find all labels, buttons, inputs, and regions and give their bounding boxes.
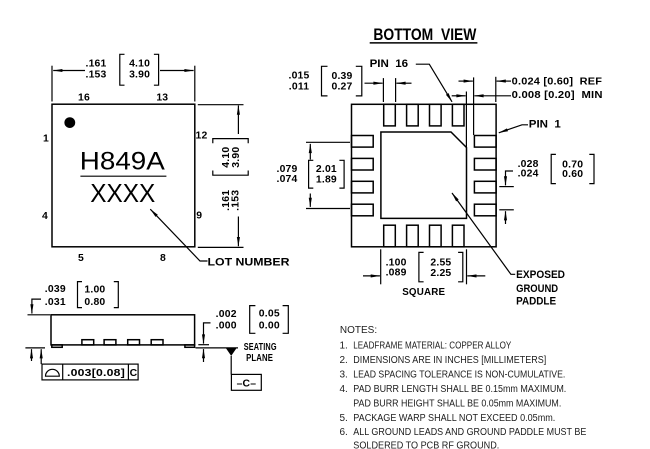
lead span dimension bracket [ [309,160,314,188]
svg-text:.074: .074 [276,174,297,185]
svg-text:SQUARE: SQUARE [402,287,445,298]
svg-text:.153: .153 [85,69,106,80]
pad width dimension arrow right [396,82,411,84]
paddle gap dimension arrow right [452,95,466,97]
standoff dimension arrow up [203,349,205,362]
right height dimension arrow up [237,106,239,135]
top width dimension bracket ] [154,54,159,85]
pad length ref dimension arrow left [497,80,511,82]
svg-text:PLANE: PLANE [246,353,273,364]
svg-text:0.05: 0.05 [259,309,280,320]
right pad 3 [474,181,496,193]
standoff dimension tick [198,344,209,346]
svg-text:2.25: 2.25 [430,268,451,279]
svg-text:PAD BURR LENGTH SHALL BE 0.15m: PAD BURR LENGTH SHALL BE 0.15mm MAXIMUM. [353,384,566,395]
bottom pad 5 [384,225,396,247]
svg-text:5: 5 [78,253,84,264]
right height dimension arrow down [237,217,239,247]
pin 16 leader [416,64,452,102]
bottom pad 6 [407,225,419,247]
side view lead 1 [82,340,94,345]
paddle size dimension ext line right [466,249,468,284]
pad width dimension arrow left [365,82,383,84]
exposed ground paddle leader [452,193,515,274]
svg-text:0.60: 0.60 [562,169,583,180]
right height dimension rotated text .161/.153 [221,190,242,211]
pitch dimension tick bottom [499,209,514,211]
svg-text:LOT NUMBER: LOT NUMBER [208,256,290,268]
lead span dimension bracket ] [339,160,344,188]
right pad 1 [474,136,496,148]
top pad 16 [384,104,396,126]
lot number leader [150,209,207,261]
top width dimension bracket [ [120,54,125,85]
right height dimension rotated bracket group 4.10/3.90 [213,139,248,176]
svg-text:9: 9 [196,211,202,222]
marking underline [80,175,166,177]
svg-text:0.008 [0.20] MIN: 0.008 [0.20] MIN [512,90,603,101]
svg-text:1: 1 [43,134,49,145]
standoff dimension bracket ] [283,306,289,334]
feature control frame box [42,364,138,380]
right height dimension extension line top [198,104,244,106]
bottom pad 8 [452,225,464,247]
svg-text:4.10: 4.10 [129,59,150,70]
pitch dimension bracket [ [551,154,556,183]
pad width dimension bracket ] [356,66,362,96]
side view left terminal tab [52,345,62,347]
package height dimension bracket ] [114,282,119,308]
svg-text:ALL GROUND LEADS AND GROUND PA: ALL GROUND LEADS AND GROUND PADDLE MUST … [353,427,586,438]
svg-text:.031: .031 [45,297,66,308]
svg-text:–C–: –C– [237,378,257,389]
svg-text:PIN 16: PIN 16 [370,58,409,70]
seating plane line right [196,347,239,349]
pad length dimension ext line paddle edge [465,92,467,149]
top pad 13 [452,104,464,126]
top width dimension arrow right [160,70,194,72]
package height dimension arrow up [31,349,33,361]
left pad 13s [352,204,374,216]
bottom view title underline [370,42,478,44]
right height dimension extension line bottom [198,246,244,248]
pitch dimension leader arrow down [506,171,514,185]
side view lead 2 [104,340,116,345]
svg-text:0.024 [0.60] REF: 0.024 [0.60] REF [512,76,603,87]
package height dimension extension line [28,314,51,316]
svg-text:.039: .039 [45,284,66,295]
left pad 15s [352,158,374,170]
svg-text:3.: 3. [340,370,348,381]
lead span dimension ext line bottom [306,208,350,210]
lead span dimension arrow up [309,144,311,160]
svg-text:8: 8 [160,253,166,264]
svg-text:.161: .161 [85,59,106,70]
package height dimension bracket [ [78,282,83,308]
profile of surface symbol [46,369,60,376]
bottom pad 7 [430,225,442,247]
svg-text:DIMENSIONS ARE IN INCHES [MILL: DIMENSIONS ARE IN INCHES [MILLIMETERS] [353,355,546,366]
pitch dimension bracket ] [589,154,594,183]
left pad 16s [352,136,374,148]
svg-text:.000: .000 [216,320,237,331]
svg-text:SEATING: SEATING [244,342,277,353]
svg-text:GROUND: GROUND [516,283,558,295]
pad length dimension ext line package edge [495,77,497,102]
svg-text:1.00: 1.00 [84,284,105,295]
svg-text:.024: .024 [518,169,539,180]
lead span dimension ext line top [306,141,350,143]
svg-text:XXXX: XXXX [90,178,155,208]
seating plane datum triangle [226,348,237,356]
side view right terminal tab [185,345,195,347]
top pad 14 [430,104,442,126]
svg-text:5.: 5. [340,413,348,424]
datum leader line [230,356,232,375]
svg-text:.089: .089 [386,268,407,279]
svg-text:PIN 1: PIN 1 [529,118,562,130]
lead span dimension arrow down [309,194,311,207]
svg-text:H849A: H849A [80,148,165,176]
right pad 2 [474,158,496,170]
svg-text:.015: .015 [288,70,309,81]
bottom view outline [352,104,497,247]
svg-text:4.: 4. [340,384,348,395]
right pad 4 [474,204,496,216]
standoff dimension bracket [ [250,306,256,334]
svg-text:LEAD SPACING TOLERANCE IS NON-: LEAD SPACING TOLERANCE IS NON-CUMULATIVE… [353,370,565,381]
svg-text:0.27: 0.27 [331,81,352,92]
pin 1 index dot [64,117,75,128]
svg-text:13: 13 [156,92,168,103]
svg-text:.153: .153 [231,190,242,211]
svg-text:PAD BURR HEIGHT SHALL BE 0.05m: PAD BURR HEIGHT SHALL BE 0.05mm MAXIMUM. [353,399,561,410]
exposed ground paddle outline [381,132,467,218]
pad width dimension ext line right [395,78,397,102]
paddle size dimension arrow left [363,275,380,277]
svg-text:16: 16 [78,92,90,103]
pad length dimension ext line pad inner edge [473,77,475,135]
svg-text:PACKAGE WARP SHALL NOT EXCEED: PACKAGE WARP SHALL NOT EXCEED 0.05mm. [353,413,555,424]
svg-text:3.90: 3.90 [231,147,242,168]
svg-text:.079: .079 [276,164,297,175]
side view body [51,315,195,345]
svg-text:4: 4 [42,211,48,222]
svg-text:.002: .002 [216,309,237,320]
svg-text:0.00: 0.00 [259,320,280,331]
standoff dimension leader arrow down [204,323,211,344]
package height dimension leader arrow down [32,299,41,313]
top width dimension extension line left [51,66,53,102]
top pad 15 [407,104,419,126]
pad width dimension bracket [ [322,66,328,96]
svg-text:NOTES:: NOTES: [340,325,377,336]
svg-text:LEADFRAME MATERIAL: COPPER ALL: LEADFRAME MATERIAL: COPPER ALLOY [353,340,511,351]
svg-text:3.90: 3.90 [129,69,150,80]
paddle size dimension bracket ] [458,252,463,281]
svg-text:6.: 6. [340,427,348,438]
side view lead 3 [128,340,140,345]
datum box -C- [231,374,261,390]
svg-text:12: 12 [196,131,208,142]
side view lead 4 [151,340,163,345]
svg-text:BOTTOM VIEW: BOTTOM VIEW [373,26,476,44]
pitch dimension tick top [499,186,514,188]
svg-text:2.01: 2.01 [316,164,337,175]
pad length ref dimension arrow right [459,80,473,82]
svg-text:0.39: 0.39 [331,71,352,82]
top width dimension arrow left [53,70,85,72]
svg-text:1.: 1. [340,340,348,351]
svg-text:EXPOSED: EXPOSED [516,269,565,281]
paddle gap dimension arrow left [474,95,511,97]
svg-text:.003[0.08]: .003[0.08] [67,368,125,379]
left pad 14s [352,181,374,193]
svg-text:2.: 2. [340,355,348,366]
flatness frame leader arrow [40,349,42,364]
svg-text:1.89: 1.89 [316,174,337,185]
svg-text:0.80: 0.80 [84,297,105,308]
svg-text:PADDLE: PADDLE [516,296,556,308]
paddle size dimension ext line left [380,249,382,284]
top view outline [52,104,195,247]
svg-text:SOLDERED TO PCB RF GROUND.: SOLDERED TO PCB RF GROUND. [353,441,499,449]
paddle size dimension arrow right [467,275,485,277]
paddle size dimension bracket [ [419,252,424,281]
seating plane line left [25,347,45,349]
svg-text:C: C [130,368,138,379]
svg-text:.011: .011 [289,81,309,92]
pad width dimension ext line left [382,78,384,102]
pin 1 leader [499,125,528,133]
top width dimension extension line right [194,66,196,102]
pitch dimension arrow up [505,211,507,224]
